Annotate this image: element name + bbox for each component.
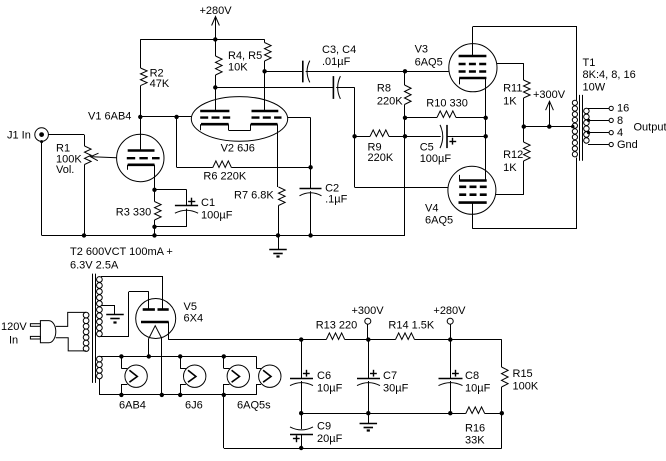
resistor R11 <box>524 80 531 98</box>
V5 cathode <box>141 321 169 324</box>
resistor R10 <box>405 117 437 119</box>
C1 polarity + <box>188 201 195 203</box>
C5 polarity + <box>449 141 456 143</box>
junction dot R7 / rail <box>276 233 280 237</box>
wire V2 left plate lead <box>215 87 217 111</box>
V2 right grid <box>252 116 282 118</box>
V3 plate <box>459 55 487 58</box>
svg-text:R6 220K: R6 220K <box>203 171 246 183</box>
junction dot R3 / rail <box>152 233 156 237</box>
resistor R5 <box>264 39 266 42</box>
svg-text:30µF: 30µF <box>383 383 409 395</box>
svg-text:In: In <box>9 335 18 347</box>
svg-text:6AQ5s: 6AQ5s <box>237 400 271 412</box>
junction dot V1 plate / R2 <box>138 115 142 119</box>
svg-text:20µF: 20µF <box>317 433 343 445</box>
svg-text:6AQ5: 6AQ5 <box>425 215 453 227</box>
svg-text:V5: V5 <box>184 301 197 313</box>
power arrow +300V <box>549 101 551 126</box>
C9 polarity + <box>293 438 300 440</box>
resistor R15 <box>501 340 503 367</box>
svg-text:R10 330: R10 330 <box>426 98 468 110</box>
V5 heater <box>149 326 162 339</box>
svg-text:33K: 33K <box>465 435 485 447</box>
pilot lamp heater 6AQ5 a <box>223 356 225 368</box>
svg-text:T2 600VCT 100mA +: T2 600VCT 100mA + <box>70 246 173 258</box>
capacitor C7 <box>368 340 370 379</box>
svg-text:Vol.: Vol. <box>56 164 74 176</box>
wire filter lower rail <box>301 413 466 415</box>
V5 right plate <box>158 308 169 311</box>
V4 control grid <box>459 186 487 189</box>
junction dot cathode / R10 <box>484 116 488 120</box>
svg-text:16: 16 <box>617 103 629 115</box>
resistor R12 <box>523 127 525 142</box>
wire main ground rail <box>42 235 405 237</box>
junction dot R11 / R12 / +300V line <box>522 124 526 128</box>
svg-text:V2 6J6: V2 6J6 <box>221 142 255 154</box>
wire plug upper to T2 primary <box>56 312 86 326</box>
V1 plate <box>128 149 155 152</box>
svg-text:10µF: 10µF <box>317 383 343 395</box>
resistor R3 <box>154 190 156 202</box>
junction dot R1 / rail <box>82 233 86 237</box>
wire top B+ rail <box>140 39 264 41</box>
svg-text:6AQ5: 6AQ5 <box>415 56 443 68</box>
svg-text:8: 8 <box>617 115 623 127</box>
resistor R9 <box>355 136 370 138</box>
svg-text:220K: 220K <box>368 152 394 164</box>
junction dots heater rails <box>119 354 123 358</box>
junction dot V3 grid node <box>403 69 407 73</box>
wire heater rail bottom <box>99 379 101 395</box>
wire plug lower to T2 primary <box>56 338 86 351</box>
capacitor C6 <box>301 340 303 379</box>
wire cathode column V3-V4 <box>485 78 487 181</box>
junction dot C4 column / R9 <box>352 134 356 138</box>
wire V4 plate to T1 primary bottom <box>472 228 577 230</box>
transformer T2 heater winding <box>97 356 103 362</box>
capacitor C9 <box>301 413 303 429</box>
svg-text:C3, C4: C3, C4 <box>322 44 356 56</box>
power arrow +280V <box>215 17 217 40</box>
tube V2 envelope <box>191 97 287 142</box>
wire jack to R1 <box>48 134 84 136</box>
junction dot C9 / bottom rail <box>299 446 303 450</box>
C6 polarity + <box>303 373 310 375</box>
svg-text:R7 6.8K: R7 6.8K <box>234 190 274 202</box>
pilot lamp heater 6AB4 <box>121 356 123 368</box>
svg-text:R15: R15 <box>513 368 533 380</box>
svg-text:R13 220: R13 220 <box>316 319 358 331</box>
svg-text:10W: 10W <box>583 81 606 93</box>
V1 grid <box>127 157 160 159</box>
wire V5 cathode to B+ rail <box>168 322 170 340</box>
svg-text:R12: R12 <box>503 149 523 161</box>
svg-text:+300V: +300V <box>533 89 566 101</box>
wire V2 right grid to node <box>288 117 311 119</box>
svg-text:100µF: 100µF <box>201 209 233 221</box>
svg-text:100K: 100K <box>513 381 539 393</box>
V2 left grid <box>200 116 230 118</box>
svg-text:V4: V4 <box>425 203 438 215</box>
junction dot top rail / R4 <box>213 37 217 41</box>
tube V4 envelope <box>448 166 496 214</box>
resistor R8 <box>404 71 406 85</box>
junction dot V1 cathode / C1 <box>152 188 156 192</box>
V2 left plate <box>200 110 229 113</box>
junction dot feedback branch <box>174 115 178 119</box>
svg-text:C5: C5 <box>420 142 434 154</box>
svg-text:T1: T1 <box>583 57 596 69</box>
wire HV top to V5 plate <box>101 276 163 278</box>
ground symbol C7 <box>368 413 370 423</box>
potentiometer R1 <box>85 146 92 165</box>
svg-text:C9: C9 <box>317 421 331 433</box>
svg-text:100µF: 100µF <box>420 153 452 165</box>
svg-text:R16: R16 <box>465 423 485 435</box>
transformer T1 core <box>579 95 581 161</box>
V5 left plate <box>143 308 155 311</box>
svg-text:47K: 47K <box>150 78 170 90</box>
svg-text:+300V: +300V <box>352 305 385 317</box>
capacitor C1 <box>155 189 187 191</box>
svg-text:R4, R5: R4, R5 <box>228 50 262 62</box>
junction dots lower rail <box>299 411 303 415</box>
V4 cathode <box>459 179 487 182</box>
svg-text:1K: 1K <box>503 162 517 174</box>
ground symbol T2 center tap <box>106 314 124 316</box>
V2 cathode lead <box>277 124 279 187</box>
capacitor C2 <box>310 167 312 188</box>
svg-text:C6: C6 <box>317 370 331 382</box>
svg-text:V3: V3 <box>415 43 428 55</box>
svg-text:1K: 1K <box>503 96 517 108</box>
ground symbol main rail <box>278 235 280 249</box>
wire feedback branch down <box>176 117 178 167</box>
resistor R7 <box>279 187 286 206</box>
svg-text:+280V: +280V <box>433 305 466 317</box>
wire heater rail top <box>99 356 256 358</box>
tube V5 envelope <box>136 299 176 339</box>
svg-text:C7: C7 <box>383 370 397 382</box>
V2 right plate <box>252 110 279 113</box>
wire jack ground side <box>41 141 43 235</box>
junction dot cathode / C5 <box>484 134 488 138</box>
wire ground return bottom <box>223 395 225 448</box>
V4 plate <box>459 201 487 204</box>
pilot lamp heater 6AQ5 b <box>256 356 258 368</box>
svg-text:.01µF: .01µF <box>322 56 351 68</box>
svg-text:10µF: 10µF <box>465 383 491 395</box>
jack J1 <box>35 128 49 142</box>
capacitor C5 <box>405 136 441 138</box>
wire C4 column to V4 grid <box>354 136 356 187</box>
transformer T1 secondary winding <box>584 108 590 114</box>
V3 screen grid <box>459 63 487 66</box>
tube V3 envelope <box>449 44 497 92</box>
resistor R4 <box>215 39 217 56</box>
output tap 8 <box>587 119 590 122</box>
transformer T2 core <box>92 274 94 383</box>
svg-text:C8: C8 <box>465 370 479 382</box>
svg-text:R8: R8 <box>377 83 391 95</box>
junction dot R8 / R10 <box>403 116 407 120</box>
wire V2 right plate lead <box>264 71 266 111</box>
svg-text:6.3V 2.5A: 6.3V 2.5A <box>70 259 119 271</box>
svg-text:Gnd: Gnd <box>617 139 638 151</box>
svg-text:R3 330: R3 330 <box>116 207 151 219</box>
junction dots B+ rail <box>299 337 303 341</box>
wire V3 screen to R11 <box>497 63 524 65</box>
svg-text:220K: 220K <box>377 96 403 108</box>
V3 control grid <box>459 70 487 73</box>
capacitor C8 <box>450 340 452 379</box>
svg-text:C2: C2 <box>325 183 339 195</box>
wire HV center tap <box>101 305 115 307</box>
svg-text:R11: R11 <box>503 83 522 95</box>
svg-text:8K:4, 8, 16: 8K:4, 8, 16 <box>583 69 636 81</box>
T1 primary center tap dot <box>571 125 574 128</box>
capacitor C4 <box>215 87 333 89</box>
wire +300V to T1 center tap <box>524 126 573 128</box>
output tap 4 <box>587 131 590 134</box>
svg-text:R14 1.5K: R14 1.5K <box>388 319 435 331</box>
transformer T1 primary winding <box>572 100 577 105</box>
R1 wiper arrow <box>92 157 117 158</box>
output tap Gnd <box>588 144 609 146</box>
svg-text:6X4: 6X4 <box>184 313 204 325</box>
junction dot R6 / C2 / V2 grid <box>308 165 312 169</box>
V2 cathodes <box>201 123 229 126</box>
resistor R16 <box>466 407 485 414</box>
resistor R13 <box>326 333 344 340</box>
junction dot R5 / C3 line <box>262 69 266 73</box>
terminal +300V <box>365 318 371 324</box>
resistor R6 <box>177 167 213 169</box>
wire V1 plate to V2 grid <box>140 116 191 118</box>
C7 polarity + <box>370 373 377 375</box>
svg-text:120V: 120V <box>1 321 27 333</box>
junction dot node / R9 / C5 <box>403 134 407 138</box>
wire node column <box>404 118 406 137</box>
V1 cathode <box>128 164 155 167</box>
capacitor C3 <box>265 71 303 73</box>
svg-text:6J6: 6J6 <box>185 400 203 412</box>
junction dot C2 / rail <box>308 233 312 237</box>
AC plug <box>30 324 40 327</box>
C8 polarity + <box>452 373 459 375</box>
junction dot R4 / C4 line <box>213 85 217 89</box>
wire V3 plate to T1 primary top <box>473 26 578 28</box>
wire B+ rail <box>168 339 326 341</box>
transformer T2 HV secondary winding <box>97 277 103 283</box>
junction dot R3 / C1 bottom <box>152 225 156 229</box>
svg-text:4: 4 <box>617 127 623 139</box>
svg-text:J1 In: J1 In <box>7 130 31 142</box>
svg-text:.1µF: .1µF <box>325 194 348 206</box>
tube V1 envelope <box>117 134 164 181</box>
terminal +280V <box>447 318 453 324</box>
svg-text:V1 6AB4: V1 6AB4 <box>88 110 131 122</box>
transformer T2 primary winding <box>83 312 89 318</box>
svg-text:C1: C1 <box>201 197 215 209</box>
svg-text:10K: 10K <box>228 62 248 74</box>
svg-text:Output: Output <box>634 122 666 134</box>
junction dot arrow / line <box>547 124 551 128</box>
V3 cathode <box>459 77 486 80</box>
resistor R2 <box>140 39 142 68</box>
V4 screen grid <box>459 193 487 196</box>
svg-text:6AB4: 6AB4 <box>119 400 146 412</box>
svg-text:+280V: +280V <box>199 5 232 17</box>
wire HV bottom to V5 plate <box>101 336 129 338</box>
resistor R14 <box>396 333 415 340</box>
pilot lamp heater 6J6 <box>180 356 182 368</box>
output tap 16 <box>588 108 609 110</box>
